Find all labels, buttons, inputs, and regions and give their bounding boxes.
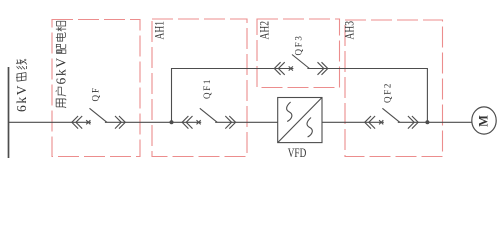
busbar 6kV [8, 67, 10, 158]
svg-text:QF1: QF1 [202, 78, 212, 99]
hanzi 母 (6kV母线) [16, 73, 27, 82]
wire: bypass branch up / across / down [172, 69, 428, 123]
VFD box [278, 98, 322, 143]
hanzi 线 (6kV母线) [16, 59, 27, 69]
motor M [472, 107, 496, 134]
svg-text:VFD: VFD [288, 145, 307, 160]
cabinet box 用户6kV配电柜 [52, 20, 140, 157]
sine wave lower [307, 118, 312, 138]
cabinet box AH2 [257, 19, 340, 88]
circuit breaker QF3 (withdrawable, bypass) [274, 55, 328, 75]
circuit breaker QF (withdrawable) [72, 108, 126, 128]
hanzi 配电柜 (用户6kV配电柜) [56, 44, 66, 54]
svg-text:AH3: AH3 [342, 21, 357, 40]
svg-text:QF3: QF3 [294, 34, 304, 55]
sine wave upper [287, 102, 292, 122]
svg-text:6kV: 6kV [54, 56, 69, 84]
blade gaps (white-outs) [91, 63, 398, 127]
svg-text:AH2: AH2 [257, 21, 272, 40]
cabinet box AH1 [152, 19, 247, 157]
circuit breaker QF2 (withdrawable) [365, 108, 419, 128]
svg-text:QF: QF [90, 86, 100, 102]
node: bypass rejoin junction [425, 120, 429, 124]
svg-text:6kV: 6kV [14, 84, 29, 112]
white background [0, 0, 500, 168]
circuit breaker QF1 (withdrawable) [182, 108, 236, 128]
wire: main line left section busbar to VFD [9, 121, 278, 123]
cabinet box AH3 [345, 20, 443, 157]
svg-text:QF2: QF2 [383, 82, 393, 103]
svg-text:AH1: AH1 [152, 21, 167, 40]
hanzi 用户 (用户6kV配电柜) [56, 99, 66, 108]
svg-text:M: M [477, 115, 491, 127]
wire: main line VFD to motor [322, 121, 472, 123]
node: branch junction [170, 120, 174, 124]
